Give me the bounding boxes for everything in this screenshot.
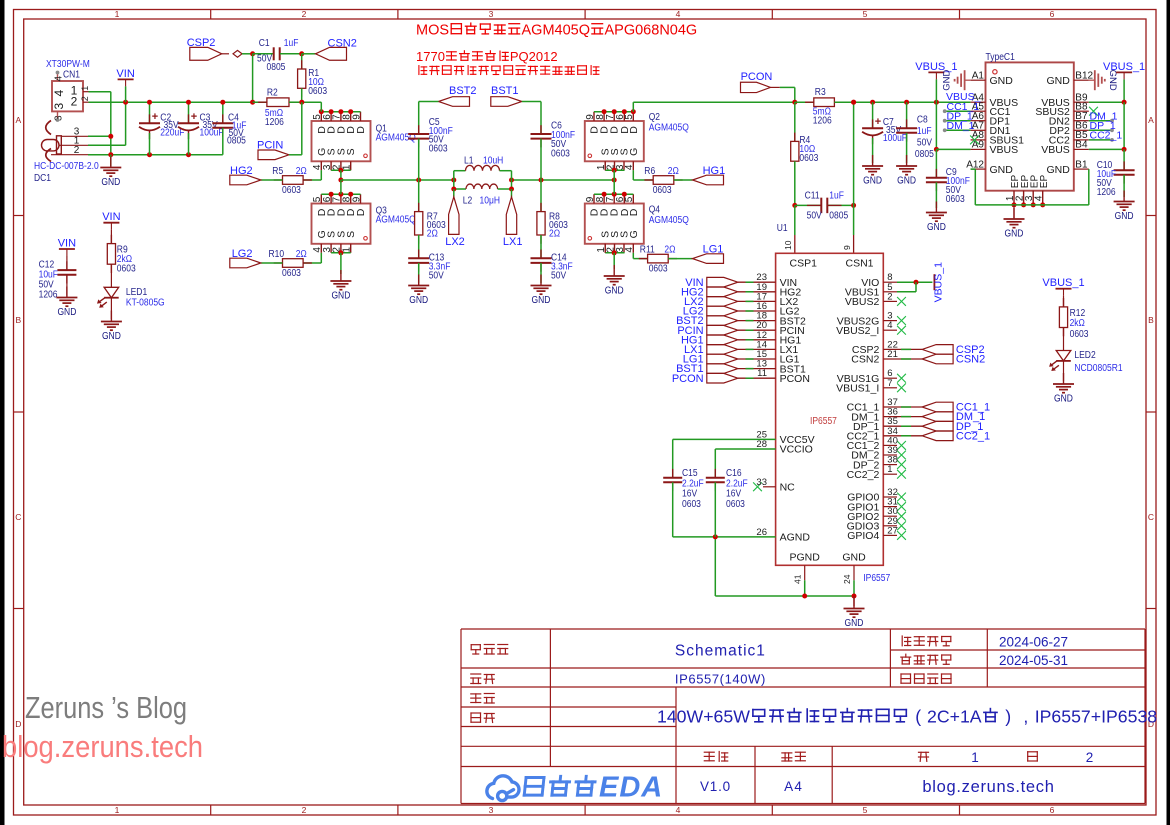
svg-text:0603: 0603 (429, 143, 448, 154)
wire B6 stub (1089, 129, 1112, 131)
svg-text:140W+65W: 140W+65W (657, 707, 750, 727)
svg-text:BST2: BST2 (449, 85, 477, 97)
TypeC pin A6 (971, 120, 986, 122)
svg-text:blog.zeruns.tech: blog.zeruns.tech (2, 730, 203, 764)
wire B9 to VBUS column (1089, 101, 1124, 103)
svg-text:IP6557: IP6557 (863, 573, 890, 584)
svg-text:Q4: Q4 (649, 205, 661, 216)
resistor R3 5mR shunt (795, 101, 814, 103)
IC U1 IP6557 (776, 253, 884, 565)
U1 pin 17 LX2 with net flag (738, 300, 776, 302)
U1 pin 23 VIN with net flag (738, 281, 776, 283)
svg-text:1uF: 1uF (284, 38, 299, 49)
U1 pin 27 GPIO4 no-connect (883, 534, 897, 536)
svg-text:KT-0805G: KT-0805G (126, 297, 165, 308)
svg-text:0603: 0603 (946, 194, 965, 205)
svg-text:2024-05-31: 2024-05-31 (999, 653, 1068, 668)
svg-text:2kΩ: 2kΩ (1070, 318, 1086, 329)
ground under U1 (853, 596, 855, 606)
svg-text:A1: A1 (972, 70, 985, 81)
svg-text:VIN: VIN (58, 238, 76, 250)
capacitor C14 3.3nF (540, 250, 542, 259)
svg-text:2: 2 (1086, 750, 1094, 765)
svg-text:GND: GND (1054, 394, 1073, 405)
svg-text:0603: 0603 (653, 185, 672, 196)
svg-text:VBUS: VBUS (990, 144, 1019, 156)
svg-text:NCD0805R1: NCD0805R1 (1074, 363, 1123, 374)
svg-text:C: C (1148, 512, 1154, 522)
U1 pin 15 LG1 with net flag (738, 358, 776, 360)
net flag LX2 (453, 189, 455, 197)
svg-text:S: S (345, 231, 357, 238)
svg-text:VBUS_1: VBUS_1 (1103, 61, 1145, 73)
power flag VBUS_1 center (928, 71, 944, 73)
connector TypeC1 (986, 62, 1074, 190)
U1 pin 11 PCON with net flag (738, 377, 776, 379)
svg-text:(: ( (915, 707, 921, 727)
svg-text:PGND: PGND (790, 552, 821, 564)
svg-text:GND: GND (102, 331, 121, 342)
wire A7 DN1 stub (945, 129, 971, 131)
ground under LED1 (101, 311, 122, 331)
ground under C14 (531, 275, 552, 295)
svg-text:IP6557: IP6557 (810, 416, 837, 427)
wire DC1 pin1 to VIN bus (88, 144, 126, 146)
transistor Q3 AGM405Q (312, 204, 371, 244)
TypeC pin A1 (971, 79, 986, 81)
svg-text:NC: NC (780, 482, 796, 494)
TypeC pin A4 (971, 101, 986, 103)
inductor L1 10uH (453, 171, 455, 189)
wire A5 CC1 stub (945, 110, 971, 112)
svg-text:GND: GND (897, 176, 916, 187)
svg-text:0603: 0603 (682, 499, 701, 510)
TypeC pin B4 (1074, 148, 1089, 150)
U1 pin 37 CC1_1 with net flag (883, 406, 922, 408)
svg-text:1: 1 (115, 9, 120, 19)
svg-text:C: C (15, 512, 21, 522)
svg-text:A: A (15, 115, 21, 125)
svg-text:GND: GND (57, 307, 76, 318)
ground at A1 (955, 70, 971, 90)
svg-text:10uH: 10uH (483, 156, 503, 167)
wire B4 to VBUS column (1089, 148, 1124, 150)
svg-text:2Ω: 2Ω (549, 229, 561, 240)
svg-text:HC-DC-007B-2.0: HC-DC-007B-2.0 (34, 161, 99, 172)
svg-text:C8: C8 (917, 115, 928, 126)
U1 pin 28 VCCIO (715, 448, 775, 450)
svg-text:VBUS1_I: VBUS1_I (836, 383, 879, 395)
svg-text:2: 2 (887, 291, 892, 302)
wire Q3 source tie (331, 252, 351, 254)
svg-text:0603: 0603 (117, 263, 136, 274)
svg-text:3: 3 (489, 9, 494, 19)
svg-text:4: 4 (624, 164, 635, 170)
inductor L2 10uH (454, 188, 466, 190)
title block labels (471, 645, 480, 654)
wire Q2 gate (632, 170, 634, 180)
TypeC pin B12 (1074, 79, 1089, 81)
svg-text:D: D (628, 126, 640, 134)
svg-text:GND: GND (927, 222, 946, 233)
svg-text:4: 4 (52, 90, 66, 97)
wire Q2 source tie (605, 169, 624, 171)
svg-text:VBUS: VBUS (1041, 144, 1070, 156)
svg-text:EP: EP (1039, 175, 1050, 189)
U1 pin 19 HG2 with net flag (738, 291, 776, 293)
svg-text:PCON: PCON (780, 373, 810, 385)
svg-text:VBUS_1: VBUS_1 (1042, 277, 1084, 289)
svg-text:7: 7 (887, 378, 892, 389)
svg-text:6: 6 (1050, 805, 1055, 815)
wire CSP1 column (794, 205, 796, 235)
svg-text:D: D (355, 126, 367, 134)
svg-text:CSP1: CSP1 (790, 258, 818, 270)
ground under Q3 (330, 270, 351, 290)
svg-text:G: G (628, 230, 640, 238)
svg-text:GND: GND (532, 295, 551, 306)
svg-text:10: 10 (783, 240, 793, 250)
U1 pin 25 VCC5V (673, 438, 776, 440)
svg-text:CSN2: CSN2 (956, 354, 985, 366)
svg-text:B1: B1 (1075, 159, 1088, 170)
svg-text:GND: GND (101, 177, 120, 188)
capacitor C9 100nF (935, 149, 937, 177)
svg-text:VBUS2_I: VBUS2_I (836, 325, 879, 337)
TypeC pin A12 (971, 168, 986, 170)
svg-text:1: 1 (80, 86, 90, 91)
net flag CSN2 (302, 53, 316, 55)
U1 pin 5 VBUS1 (883, 291, 897, 293)
svg-text:U1: U1 (777, 223, 788, 234)
svg-text:PQ2012: PQ2012 (510, 49, 558, 64)
wire VBUS column down (935, 102, 937, 149)
U1 pin 29 GDIO3 no-connect (883, 525, 897, 527)
connector CN1 XT30PW-M (46, 59, 90, 122)
svg-text:0805: 0805 (915, 149, 934, 160)
U1 pin 20 PCIN with net flag (738, 329, 776, 331)
svg-text:4: 4 (624, 247, 635, 253)
ground under TypeC1 (1013, 205, 1015, 218)
svg-text:0603: 0603 (799, 153, 818, 164)
svg-text:4: 4 (676, 805, 681, 815)
U1 pin 33 NC (763, 486, 776, 488)
TypeC pin B5 (1074, 139, 1089, 141)
svg-text:CC2_1: CC2_1 (1090, 130, 1123, 142)
no-connect A8 (970, 136, 979, 145)
U1 pin 35 DP_1 with net flag (883, 425, 922, 427)
svg-text:1206: 1206 (1097, 187, 1116, 198)
resistor R1 10R (301, 54, 303, 69)
svg-text:5: 5 (863, 9, 868, 19)
JLCEDA logo (487, 776, 519, 801)
svg-text:9: 9 (351, 114, 362, 120)
svg-text:1206: 1206 (813, 115, 832, 126)
wire VIN bus from CN1 pin2 (89, 101, 322, 103)
svg-text:41: 41 (793, 574, 803, 584)
svg-text:28: 28 (756, 439, 767, 450)
svg-text:AGM405Q: AGM405Q (649, 215, 689, 226)
svg-text:D: D (15, 719, 21, 729)
svg-text:0603: 0603 (1070, 329, 1089, 340)
svg-text:1770: 1770 (416, 49, 445, 64)
svg-text:GND: GND (842, 552, 866, 564)
TypeC pin B7 (1074, 120, 1089, 122)
svg-text:CSN1: CSN1 (846, 258, 874, 270)
svg-text:DM_1: DM_1 (947, 120, 975, 132)
ground under C8 (896, 155, 917, 175)
svg-text:1: 1 (887, 464, 892, 475)
resistor R12 2k (1063, 298, 1065, 307)
capacitor C7 100uF (872, 102, 874, 128)
svg-text:CSN2: CSN2 (851, 354, 879, 366)
capacitor C8 1uF (906, 102, 908, 128)
wire mid bus (341, 179, 454, 181)
svg-text:0603: 0603 (308, 86, 327, 97)
svg-text:GND: GND (409, 295, 428, 306)
svg-text:C11: C11 (805, 190, 820, 201)
svg-text:DC1: DC1 (34, 173, 51, 184)
U1 pin 2 VBUS2 no-connect (883, 300, 897, 302)
svg-text:2Ω: 2Ω (668, 166, 680, 177)
TypeC pin B6 (1074, 129, 1089, 131)
svg-text:XT30PW-M: XT30PW-M (46, 59, 90, 70)
wire U1 ground rail (715, 595, 854, 597)
svg-text:VBUS_: VBUS_ (946, 91, 981, 103)
svg-text:+: + (875, 116, 881, 128)
U1 pin 8 VIO (883, 281, 897, 283)
wire Q2 drain to top bus (632, 102, 634, 112)
transistor Q4 AGM405Q (585, 204, 644, 244)
wire CSP2 down to bus (252, 54, 254, 102)
U1 pin 4 VBUS2_I no-connect (883, 329, 897, 331)
TypeC pin A7 (971, 129, 986, 131)
svg-text:IP6557(140W): IP6557(140W) (675, 672, 766, 687)
resistor R4 10R (794, 102, 796, 141)
svg-text:GND: GND (1115, 211, 1134, 222)
svg-text:Q2: Q2 (649, 112, 661, 123)
svg-text:6: 6 (1050, 9, 1055, 19)
title block grid (461, 629, 1145, 804)
svg-text:Zeruns ’s Blog: Zeruns ’s Blog (25, 691, 187, 725)
svg-text:100uF: 100uF (200, 128, 224, 139)
TypeC pin A8 (971, 139, 986, 141)
svg-text:C1: C1 (259, 38, 270, 49)
svg-text:B4: B4 (1075, 140, 1088, 151)
ground under C7 (862, 155, 883, 175)
svg-text:A12: A12 (966, 159, 984, 170)
svg-text:L2: L2 (463, 196, 473, 207)
svg-text:GND: GND (605, 286, 624, 297)
ground under Q4 (604, 265, 625, 285)
svg-text:S: S (345, 148, 357, 155)
svg-text:R6: R6 (644, 166, 655, 177)
svg-text:LG1: LG1 (703, 243, 724, 255)
svg-text:1: 1 (971, 750, 979, 765)
wire B7 stub (1089, 120, 1112, 122)
connector DC1 HC-DC-007B-2.0 (34, 121, 99, 184)
svg-text:GND: GND (942, 70, 953, 91)
svg-text:0603: 0603 (551, 148, 570, 159)
svg-text:APG068N04G: APG068N04G (605, 23, 698, 39)
U1 pin 32 GPIO0 no-connect (883, 496, 897, 498)
svg-text:5: 5 (624, 114, 635, 120)
svg-text:2Ω: 2Ω (296, 166, 308, 177)
resistor R10 2R (274, 262, 283, 264)
U1 pin 26 AGND (715, 536, 775, 538)
net flag LX1 (511, 189, 513, 197)
wire bottom GND rail (88, 154, 223, 156)
svg-text:R3: R3 (815, 87, 826, 98)
svg-text:GPIO4: GPIO4 (847, 530, 879, 542)
U1 pin 40 CC1_2 no-connect (883, 444, 897, 446)
svg-text:1uF: 1uF (829, 190, 844, 201)
wire EP ground rail (975, 204, 1089, 206)
svg-text:+: + (191, 111, 197, 123)
svg-text:CC2_1: CC2_1 (956, 430, 990, 442)
svg-text:50V: 50V (807, 210, 822, 221)
svg-text:1206: 1206 (39, 290, 58, 301)
svg-text:0805: 0805 (829, 210, 848, 221)
ground under C9 (926, 202, 947, 222)
wire Q1 drain tie (321, 111, 360, 113)
no-connect B8 (1089, 107, 1098, 116)
svg-text:9: 9 (842, 245, 852, 250)
svg-text:GND: GND (990, 75, 1014, 87)
svg-text:33: 33 (756, 477, 767, 488)
svg-text:A: A (1148, 115, 1154, 125)
svg-text:blog.zeruns.tech: blog.zeruns.tech (922, 778, 1054, 796)
svg-text:2: 2 (71, 95, 78, 109)
svg-text:1: 1 (342, 247, 353, 253)
svg-text:Schematic1: Schematic1 (675, 643, 766, 660)
svg-text:AGM405Q: AGM405Q (522, 23, 591, 39)
wire Q1 gate (320, 170, 322, 180)
TypeC pin A5 (971, 110, 986, 112)
svg-text:EDA: EDA (599, 772, 663, 804)
svg-text:LX2: LX2 (445, 236, 465, 248)
svg-text:3: 3 (489, 805, 494, 815)
resistor R7 2R (418, 180, 420, 212)
ground under LED2 (1053, 373, 1074, 393)
capacitor C16 2.2uF (714, 449, 716, 478)
ground under C10 (1114, 191, 1135, 211)
capacitor C13 3.3nF (418, 250, 420, 259)
resistor R2 5mR shunt (253, 101, 267, 103)
resistor R5 2R (274, 179, 283, 181)
power flag VBUS_1 right (1116, 71, 1132, 73)
U1 pin 12 HG1 with net flag (738, 339, 776, 341)
svg-text:2: 2 (80, 96, 90, 101)
svg-text:D: D (355, 208, 367, 216)
capacitor C3 100uF (188, 102, 190, 123)
svg-text:0603: 0603 (282, 268, 301, 279)
svg-text:10μH: 10μH (480, 196, 501, 207)
svg-text:G: G (628, 148, 640, 156)
capacitor C2 220uF (149, 102, 151, 123)
svg-text:B: B (15, 315, 21, 325)
svg-text:2024-06-27: 2024-06-27 (999, 634, 1068, 649)
svg-text:27: 27 (887, 525, 898, 536)
resistor R8 2R (540, 180, 542, 212)
svg-text:B: B (1148, 315, 1154, 325)
svg-text:26: 26 (756, 527, 767, 538)
svg-text:BST1: BST1 (491, 85, 519, 97)
U1 pin 21 CSN2 with net flag (883, 358, 922, 360)
svg-text:4: 4 (53, 76, 64, 82)
wire DC1 pin3 (88, 135, 111, 137)
resistor R9 2k (110, 235, 112, 244)
U1 pin 38 DP_2 no-connect (883, 464, 897, 466)
svg-text:5: 5 (863, 805, 868, 815)
svg-text:MOS: MOS (416, 23, 449, 39)
wire Q4 source tie (605, 252, 624, 254)
svg-text:24: 24 (842, 574, 852, 584)
capacitor C4 1uF (222, 102, 224, 123)
svg-text:AGM405Q: AGM405Q (376, 215, 416, 226)
TypeC pin B8 (1074, 110, 1089, 112)
svg-text:R2: R2 (267, 88, 278, 99)
ground under C12 (56, 287, 77, 307)
wire A6 DP1 stub (945, 120, 971, 122)
U1 pin 16 LG2 with net flag (738, 310, 776, 312)
svg-text:VBUS2: VBUS2 (845, 296, 880, 308)
net flag HG1 (693, 175, 724, 185)
svg-text:0805: 0805 (267, 62, 286, 73)
svg-text:2C+1A: 2C+1A (927, 707, 982, 727)
power flag VIN top (118, 78, 134, 80)
U1 pin 13 BST1 with net flag (738, 368, 776, 370)
U1 pin 7 VBUS1_I no-connect (883, 387, 897, 389)
U1 pin 30 GPIO2 no-connect (883, 515, 897, 517)
U1 pin 36 DM_1 with net flag (883, 416, 922, 418)
wire Q3 gate (320, 253, 322, 263)
net flag LG1 (693, 254, 724, 264)
resistor R6 2R (644, 179, 653, 181)
svg-text:3: 3 (52, 103, 66, 110)
svg-text:2Ω: 2Ω (664, 244, 676, 255)
capacitor C10 10uF (1123, 149, 1125, 170)
svg-text:PCON: PCON (672, 373, 704, 385)
wire Q2 drain tie (594, 111, 633, 113)
svg-text:2: 2 (302, 805, 307, 815)
capacitor C11 1uF (792, 203, 797, 208)
wire Q4 gate (632, 253, 634, 259)
svg-text:CC2_2: CC2_2 (847, 469, 880, 481)
svg-text:2Ω: 2Ω (296, 249, 308, 260)
svg-text:L1: L1 (464, 156, 474, 167)
power flag VIN for C12 (59, 248, 75, 250)
svg-text:+: + (152, 111, 158, 123)
svg-text:50V: 50V (429, 270, 444, 281)
wire A12 to EP rail (971, 168, 976, 170)
capacitor C12 10uF (66, 261, 68, 270)
svg-text:IP6557+IP6538: IP6557+IP6538 (1035, 707, 1158, 727)
TypeC pin B1 (1074, 168, 1089, 170)
resistor R11 2R (639, 258, 648, 260)
svg-text:LX1: LX1 (503, 236, 523, 248)
LED2 (1056, 351, 1071, 361)
svg-text:): ) (1005, 707, 1011, 727)
svg-text:100uF: 100uF (883, 133, 907, 144)
wire B1 to EP rail (1088, 169, 1090, 205)
ground at B12 (1089, 70, 1105, 90)
svg-text:GND: GND (331, 291, 350, 302)
capacitor C15 2.2uF (672, 439, 674, 477)
U1 pin 22 CSP2 with net flag (883, 348, 922, 350)
svg-text:VCCIO: VCCIO (780, 444, 813, 456)
svg-text:1206: 1206 (265, 117, 284, 128)
